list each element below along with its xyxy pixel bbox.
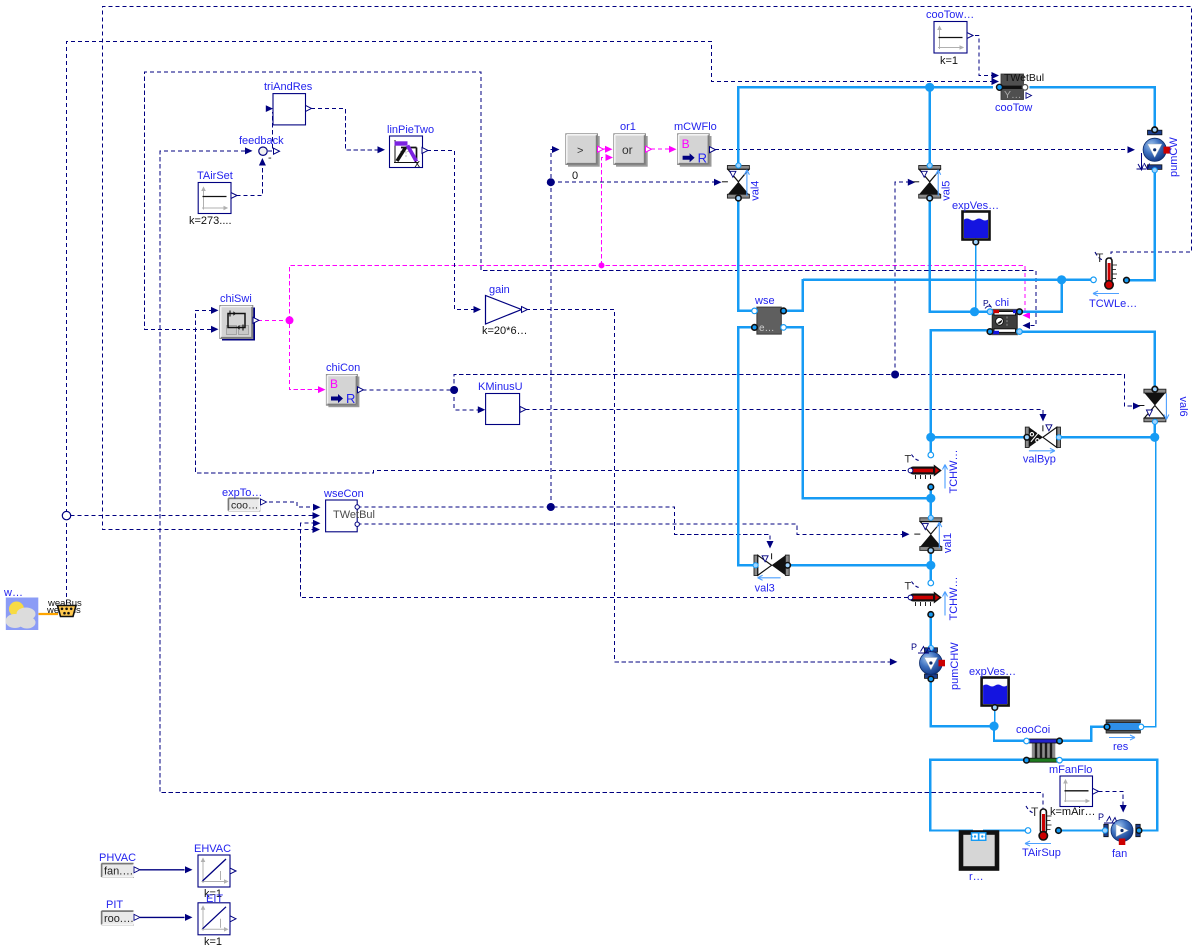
wire: wse CW outlet up	[781, 279, 803, 311]
valve val3 (horizontal)	[753, 553, 790, 594]
wire: weaBus connector line (orange)	[39, 613, 59, 615]
chiller chi	[983, 297, 1022, 335]
svg-text:roo.…: roo.…	[104, 913, 134, 925]
svg-text:k=mAir…: k=mAir…	[1050, 806, 1096, 818]
block PIT (expression roo...)	[102, 899, 141, 925]
wire: junction to TCHW2	[930, 565, 932, 582]
svg-text:gain: gain	[489, 284, 510, 296]
wire: chi evaporator return to val6	[1021, 332, 1155, 388]
svg-text:TWetBul: TWetBul	[333, 509, 375, 521]
svg-text:B: B	[682, 137, 690, 151]
tank expVes2 (expansion vessel)	[969, 666, 1016, 710]
svg-text:T: T	[1096, 251, 1104, 265]
svg-text:TCHW…: TCHW…	[948, 577, 960, 621]
wire: expTo to wseCon.u1	[262, 502, 321, 511]
block greater (>) with constant 0	[566, 134, 604, 182]
wire: pumCW down to TCWLe corner	[1153, 171, 1155, 281]
block or1	[614, 121, 652, 167]
node: expVes2 junction	[989, 722, 998, 731]
svg-text:EHVAC: EHVAC	[194, 843, 231, 855]
svg-text:k=1: k=1	[204, 936, 222, 948]
svg-text:mCWFlo: mCWFlo	[674, 121, 717, 133]
wire: val6 down to bypass junction	[1153, 424, 1155, 438]
svg-text:val4: val4	[749, 181, 761, 201]
wire: val5 branch down	[929, 87, 931, 166]
wire: wseCon.y1 to val3, val4, greater.u	[358, 146, 774, 549]
valve val4	[722, 163, 762, 201]
svg-text:chiCon: chiCon	[326, 362, 360, 374]
svg-text:T: T	[1031, 805, 1039, 819]
svg-text:e…: e…	[759, 323, 775, 334]
svg-text:P: P	[1098, 812, 1104, 822]
wire: cooCoi water outlet to res	[1061, 727, 1106, 741]
valve val1	[914, 515, 954, 553]
wire: TCWLe.T to wseCon.u4 (outer dashed loop)	[103, 7, 1192, 534]
svg-text:x: x	[415, 158, 421, 170]
wire: air loop cooCoi to room supply	[930, 760, 1025, 835]
node: val3 junction	[926, 561, 935, 570]
svg-text:r…: r…	[969, 871, 984, 883]
wire: mFanFlo.y to fan.m_flow_in	[1099, 791, 1127, 812]
svg-text:wse: wse	[754, 295, 775, 307]
wire: TCHW2 to pumCHW	[930, 616, 932, 650]
wire: TCHW1.T to chiSwi.u1	[195, 307, 906, 473]
svg-text:T: T	[905, 581, 912, 593]
svg-text:R: R	[698, 151, 707, 166]
node: CW return junction (chi branch)	[1057, 275, 1066, 284]
node: bypass junction left	[926, 433, 935, 442]
wire: fan to cooCoi air inlet	[1061, 760, 1158, 831]
svg-text:coo…: coo…	[231, 500, 258, 512]
block chiSwi (chiller switch state machine)	[220, 293, 259, 341]
wire: wse CHW inlet from val3	[738, 327, 753, 565]
svg-text:linPieTwo: linPieTwo	[387, 124, 434, 136]
wire: TAirSup.T to feedback.u1	[160, 147, 1043, 811]
svg-text:expVes…: expVes…	[952, 200, 999, 212]
wire: TAirSup to fan	[1060, 829, 1105, 831]
wire: chi condenser outlet up to TCWLe line	[1021, 280, 1062, 312]
coil cooCoi (cooling coil)	[1016, 724, 1062, 763]
wire: wseCon.y2 to val1	[358, 524, 910, 538]
wire: PIT to EIT (solid)	[140, 914, 193, 921]
block feedback (difference)	[239, 135, 284, 155]
svg-text:fan.…: fan.…	[104, 866, 133, 878]
svg-text:k=20*6…: k=20*6…	[482, 325, 528, 337]
node: weaBus tap junction (open circle)	[62, 511, 70, 519]
svg-text:chi: chi	[995, 297, 1009, 309]
svg-text:fan: fan	[1112, 848, 1127, 860]
svg-text:w…: w…	[3, 587, 23, 599]
svg-text:TAirSet: TAirSet	[197, 170, 233, 182]
block gain (k=20*6...)	[482, 284, 528, 337]
wire: TAirSet.y to feedback minus input	[237, 152, 273, 196]
wire: chiCon.y to val6, val5, KMinusU.u	[363, 179, 1141, 414]
svg-text:TCWLe…: TCWLe…	[1089, 298, 1137, 310]
svg-text:KMinusU: KMinusU	[478, 381, 523, 393]
fan	[1098, 812, 1142, 860]
svg-text:val3: val3	[755, 582, 775, 594]
block triAndRes (trim and respond)	[264, 81, 313, 125]
wire: or1.y to mCWFlo.u (magenta)	[651, 146, 677, 153]
wire: junction to val1 top	[930, 498, 932, 517]
block chiCon (chiller controller B->R)	[326, 362, 364, 407]
weather data reader	[3, 587, 38, 630]
svg-text:val1: val1	[942, 533, 954, 553]
svg-text:or: or	[622, 143, 633, 157]
sensor TCWLe (temperature)	[1089, 251, 1137, 310]
resistance res (pressure drop)	[1104, 720, 1144, 753]
svg-text:PIT: PIT	[106, 899, 123, 911]
wire: junction to TCHW1	[930, 437, 932, 452]
svg-text:valByp: valByp	[1023, 453, 1056, 465]
wire: chi on/off dashed loop to chiSwi.u2	[145, 72, 1036, 333]
wire: PHVAC to EHVAC (solid)	[140, 866, 193, 873]
valve val5	[913, 163, 953, 201]
block mFanFlo (constant k=mAir)	[1049, 764, 1099, 818]
svg-text:pumCHW: pumCHW	[949, 642, 961, 690]
node: wse outlet junction	[926, 494, 935, 503]
pump pumCW	[1137, 127, 1181, 177]
room roo (data center room)	[961, 833, 997, 884]
wire: KMinusU.y to valByp	[526, 409, 1047, 421]
wire: gain.y to pumCHW.m_flow_in	[526, 310, 897, 666]
svg-text:cooCoi: cooCoi	[1016, 724, 1050, 736]
wire: val4 down to wse CW inlet	[738, 198, 753, 311]
svg-text:expTo…: expTo…	[222, 487, 262, 499]
svg-text:feedback: feedback	[239, 135, 284, 147]
block EHVAC (integrator k=1)	[194, 843, 236, 900]
wire: linPieTwo.y to gain.u	[427, 150, 481, 313]
svg-text:val6: val6	[1177, 397, 1189, 417]
svg-text:B: B	[330, 377, 338, 391]
node: CW junction at val5	[925, 83, 934, 92]
svg-text:TAirSup: TAirSup	[1022, 847, 1061, 859]
wire: pumCHW bottom to cooCoi with expVes2 tee	[931, 678, 1025, 741]
svg-text:TCHW…: TCHW…	[948, 450, 960, 494]
svg-text:PHVAC: PHVAC	[99, 852, 136, 864]
wire: val3 to CHW riser junction	[790, 564, 931, 566]
block mCWFlo (B->R)	[674, 121, 717, 167]
svg-text:pumCW: pumCW	[1168, 137, 1180, 177]
svg-text:or1: or1	[620, 121, 636, 133]
block PHVAC (expression fan...)	[99, 852, 140, 878]
svg-text:-: -	[268, 152, 272, 164]
wire: feedback.y to triAndRes.u	[266, 105, 273, 151]
block linPieTwo (piecewise linear)	[387, 124, 434, 170]
svg-text:T: T	[905, 454, 912, 466]
block KMinusU	[478, 381, 526, 425]
sensor TCHW1 (horizontal thermometer)	[905, 450, 961, 494]
wire: weaBus to cooTow.TAir and wseCon.u2	[67, 42, 1000, 605]
svg-text:R: R	[346, 391, 355, 406]
wire: wse CHW outlet down to val1 junction	[781, 327, 931, 498]
block TAirSet (constant)	[189, 170, 237, 227]
svg-text:chiSwi: chiSwi	[220, 293, 252, 305]
svg-text:val5: val5	[941, 181, 953, 201]
svg-text:0: 0	[572, 170, 578, 182]
wire: greater.y to or1.u1 (magenta)	[603, 146, 613, 153]
node: expVes1 junction	[970, 307, 979, 316]
svg-text:weaBus: weaBus	[47, 598, 82, 609]
svg-text:EIT: EIT	[206, 893, 223, 905]
svg-text:cooTow…: cooTow…	[926, 9, 974, 21]
svg-text:expVes…: expVes…	[969, 666, 1016, 678]
block EIT (integrator k=1)	[198, 893, 236, 948]
wire: chi evaporator outlet down to bypass junction	[931, 330, 989, 437]
valve val6 (flipped)	[1138, 386, 1189, 424]
wire: triAndRes.y to linPieTwo.u	[311, 108, 385, 153]
wire: mCWFlo.y to pumCW.m_flow_in	[715, 146, 1135, 153]
svg-text:P: P	[911, 642, 917, 652]
wire: TCHW1 to val1 junction	[930, 489, 932, 499]
wire: TCHW2.T to wseCon.u3	[300, 520, 908, 598]
pump pumCHW	[911, 642, 961, 690]
svg-text:triAndRes: triAndRes	[264, 81, 313, 93]
wire: room return to TAirSup	[984, 831, 1026, 835]
wire: TCWLe line (wse+chi condenser return)	[803, 279, 1156, 282]
wire: val1 bottom to val3 junction	[930, 551, 932, 566]
svg-text:Y…: Y…	[1004, 89, 1022, 101]
svg-text:res: res	[1113, 741, 1129, 753]
valve valByp (bypass, horizontal)	[1023, 425, 1062, 466]
wire: condenser water supply header (val4 up / cooTow line)	[738, 87, 1154, 166]
wire: val5 to chi condenser inlet with expVes1 tee	[930, 198, 989, 312]
sensor TCHW2 (horizontal thermometer)	[905, 577, 961, 621]
block cooTowTApp (constant k=1)	[926, 9, 974, 67]
wire: res return riser to bypass junction	[1142, 439, 1156, 727]
node: bypass junction right	[1150, 433, 1159, 442]
svg-text:k=1: k=1	[940, 55, 958, 67]
wire: cooTowTApp.y to cooTow input	[968, 36, 999, 80]
wire: chiSwi.y boolean net (magenta) to chiCon.u, or1.u2, chi.on	[258, 154, 1030, 393]
svg-text:cooTow: cooTow	[995, 102, 1032, 114]
svg-text:mFanFlo: mFanFlo	[1049, 764, 1092, 776]
sensor TAirSup (temperature)	[1022, 805, 1061, 859]
heat exchanger wse (water side economizer)	[752, 295, 787, 334]
wire: bypass line valByp	[931, 436, 1155, 438]
block wseCon (WSE controller)	[323, 488, 375, 532]
svg-text:k=273....: k=273....	[189, 215, 232, 227]
svg-text:P: P	[983, 298, 989, 308]
svg-text:wseCon: wseCon	[323, 488, 364, 500]
block expTo (expression coo...)	[222, 487, 267, 512]
component cooTow (cooling tower)	[995, 72, 1044, 114]
tank expVes1 (expansion vessel)	[952, 200, 999, 245]
svg-text:>: >	[577, 145, 583, 157]
svg-text:TWetBul: TWetBul	[1004, 72, 1044, 84]
